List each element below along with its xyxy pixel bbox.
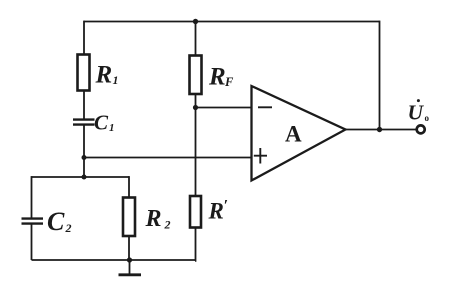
wire R2 branch upper bbox=[128, 176, 130, 197]
resistor RF bbox=[190, 56, 202, 95]
output terminal Uo circle bbox=[417, 125, 425, 133]
node junction of C1 branch and C2/R2 box top bbox=[82, 175, 87, 180]
wire inverting node down to R' bbox=[195, 108, 197, 197]
node P junction of C1 and noninverting tap bbox=[82, 155, 87, 160]
resistor R2 bbox=[123, 198, 135, 237]
label C2 bbox=[47, 207, 72, 236]
label A op-amp gain bbox=[285, 122, 302, 147]
wire R1 bottom to C1 bbox=[83, 91, 85, 120]
svg-text:R: R bbox=[95, 62, 113, 89]
svg-text:C: C bbox=[47, 207, 65, 236]
svg-text:2: 2 bbox=[65, 221, 72, 235]
wire R2 branch lower bbox=[128, 236, 130, 260]
svg-text:C: C bbox=[94, 111, 109, 135]
wire C1 bottom down to parallel box top bbox=[83, 125, 85, 177]
label R' bbox=[208, 198, 229, 224]
node top bus to RF junction bbox=[193, 19, 198, 24]
svg-text:U: U bbox=[408, 101, 425, 125]
resistor R1 bbox=[78, 55, 90, 91]
label C1 bbox=[94, 111, 115, 135]
ground bbox=[119, 260, 142, 275]
wire C2 branch lower bbox=[31, 224, 33, 260]
label R1 bbox=[95, 62, 119, 89]
wire inverting input to op-amp bbox=[196, 107, 252, 109]
label RF bbox=[208, 64, 234, 91]
wire R' bottom to ground rail bbox=[194, 228, 197, 261]
op-amp inverting input minus sign bbox=[258, 106, 272, 108]
node output feedback junction bbox=[377, 127, 382, 132]
svg-text:o: o bbox=[425, 113, 430, 123]
node ground junction bbox=[127, 257, 132, 262]
wire op-amp output bbox=[346, 129, 417, 131]
svg-text:1: 1 bbox=[113, 73, 119, 87]
svg-text:F: F bbox=[224, 75, 234, 89]
op-amp noninverting input plus sign bbox=[254, 148, 267, 164]
node inverting input junction of RF and R' bbox=[193, 105, 198, 110]
svg-text:R: R bbox=[145, 206, 162, 232]
wire noninverting input tap to op-amp bbox=[84, 157, 252, 159]
capacitor C2 bbox=[22, 219, 44, 224]
capacitor C1 bbox=[73, 120, 95, 125]
wire bottom ground rail bbox=[32, 259, 197, 261]
label R2 bbox=[145, 206, 171, 232]
wire parallel box top rail bbox=[32, 176, 130, 178]
svg-text:R: R bbox=[208, 199, 224, 224]
svg-text:R: R bbox=[208, 64, 226, 91]
wire feedback from top bus down to output bbox=[379, 21, 381, 130]
svg-text:2: 2 bbox=[164, 218, 171, 232]
svg-text:1: 1 bbox=[109, 122, 115, 134]
wire top bus from R1 branch to feedback corner bbox=[84, 21, 380, 23]
wire RF bottom to inverting node bbox=[195, 94, 197, 108]
wire top bus down to RF bbox=[195, 22, 197, 56]
svg-text:′: ′ bbox=[224, 198, 229, 215]
wire left branch top (top bus down to R1) bbox=[83, 21, 85, 55]
svg-text:A: A bbox=[285, 122, 302, 147]
wire C2 branch upper bbox=[31, 176, 33, 218]
label Uo output voltage bbox=[408, 99, 430, 124]
op-amp A bbox=[252, 86, 346, 181]
resistor R' bbox=[190, 196, 201, 228]
